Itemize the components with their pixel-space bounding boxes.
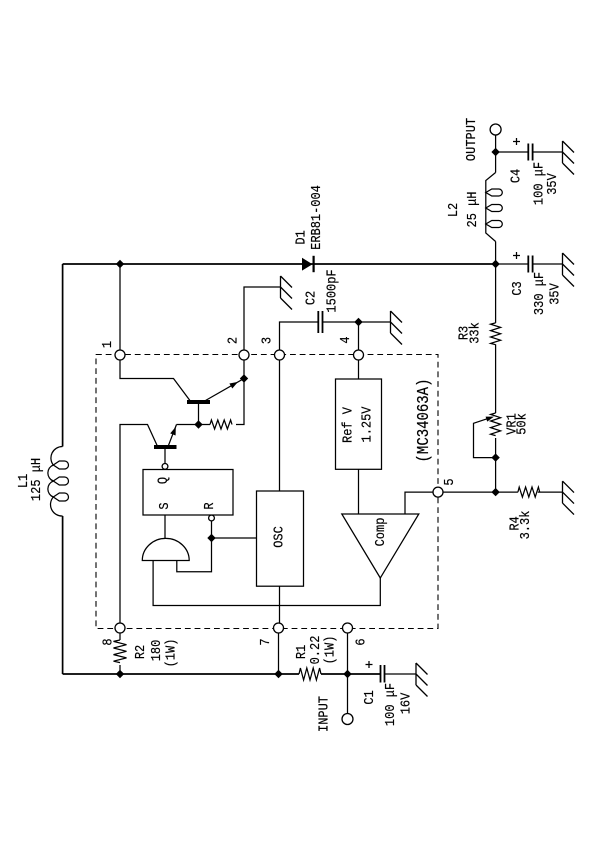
ground C1 bbox=[416, 663, 428, 697]
AND gate bbox=[142, 538, 189, 560]
capacitor C1 bbox=[381, 665, 385, 683]
wire pin4 to RefV bbox=[358, 360, 360, 380]
wire VR1 to pin5 node bbox=[495, 438, 497, 492]
pin 1 bbox=[115, 350, 125, 360]
wire pin1 from top rail bbox=[119, 264, 121, 351]
svg-text:16V: 16V bbox=[398, 693, 414, 715]
wire R3 to VR1 bbox=[495, 344, 497, 413]
pin 7 bbox=[274, 623, 284, 633]
wire pin1 to Q1 collector bbox=[120, 360, 190, 401]
wire OSC to R node bbox=[212, 537, 257, 539]
ground R4 bbox=[563, 481, 575, 514]
svg-text:2: 2 bbox=[225, 337, 241, 344]
wire C3 to ground bbox=[533, 263, 563, 265]
svg-text:(MC34063A): (MC34063A) bbox=[414, 379, 433, 463]
transistor Q2 base bar bbox=[154, 445, 177, 449]
junction R node bbox=[207, 534, 215, 542]
capacitor C3 bbox=[528, 256, 532, 273]
transistor Q2 collector bbox=[120, 425, 157, 624]
wire R2 to bottom rail bbox=[119, 665, 121, 674]
svg-text:35V: 35V bbox=[547, 283, 563, 305]
wire bottom rail right segment bbox=[321, 673, 381, 675]
terminal INPUT bbox=[342, 714, 353, 725]
svg-text:R2: R2 bbox=[132, 645, 148, 659]
svg-text:Comp: Comp bbox=[372, 518, 388, 547]
wire AND gate left input from comparator bbox=[153, 561, 380, 606]
wire INPUT stem bbox=[347, 674, 349, 714]
svg-text:1500pF: 1500pF bbox=[324, 269, 340, 312]
resistor internal (base resistor) bbox=[199, 420, 232, 429]
wire node to C3 bbox=[496, 263, 529, 265]
pin 3 bbox=[275, 350, 285, 360]
wire bottom rail left segment bbox=[63, 673, 299, 675]
svg-text:(1W): (1W) bbox=[322, 636, 338, 665]
wire R input to OSC node bbox=[177, 521, 212, 572]
resistor R1 bbox=[299, 668, 321, 680]
flip-flop box bbox=[143, 470, 233, 516]
junction bottom rail / pin6 / INPUT / C1 bbox=[343, 670, 351, 678]
svg-text:125 μH: 125 μH bbox=[28, 458, 44, 501]
arrow Q2 emitter bbox=[170, 427, 176, 436]
svg-text:C4: C4 bbox=[508, 169, 524, 184]
wire pin4 up bbox=[358, 322, 360, 351]
svg-text:5: 5 bbox=[441, 478, 457, 485]
junction pin5 / R4 bbox=[491, 488, 499, 496]
junction OUTPUT / L2 / C4 bbox=[491, 148, 499, 156]
resistor R3 bbox=[491, 323, 501, 345]
svg-text:S: S bbox=[156, 502, 172, 509]
wire RefV to comparator bbox=[358, 469, 360, 514]
arrow VR1 wiper bbox=[486, 417, 494, 422]
variable resistor VR1 bbox=[491, 413, 501, 436]
transistor Q1 base lead bbox=[198, 404, 200, 425]
pin 2 bbox=[239, 350, 249, 360]
svg-text:C1: C1 bbox=[361, 690, 377, 705]
transistor Q1 emitter bbox=[206, 379, 245, 401]
capacitor C2 bbox=[318, 311, 322, 333]
svg-text:ERB81-004: ERB81-004 bbox=[308, 185, 324, 250]
svg-text:3.3k: 3.3k bbox=[517, 510, 533, 539]
pin 8 bbox=[115, 623, 125, 633]
wire pin5 to comparator bbox=[405, 492, 433, 514]
wire top rail from L1 corner to output node bbox=[63, 263, 496, 265]
ground C2 bbox=[391, 311, 403, 345]
pin 5 bbox=[433, 487, 443, 497]
junction VR1 bottom bbox=[491, 453, 499, 461]
svg-text:33k: 33k bbox=[467, 322, 483, 344]
junction top rail / pin1 bbox=[116, 260, 124, 268]
transistor Q1 base bar bbox=[187, 400, 210, 404]
ground pin2 bbox=[281, 276, 293, 310]
wire Q2 emitter link bbox=[177, 424, 199, 426]
wire left rail upper (to L1) bbox=[62, 264, 64, 447]
svg-text:8: 8 bbox=[100, 638, 116, 645]
junction Q1 base / resistor / Q2 emitter bbox=[194, 420, 202, 428]
wire pin8 to R2 bbox=[119, 633, 121, 641]
wire pin3 to C2 bbox=[280, 322, 319, 351]
wire L2 to top rail node bbox=[495, 242, 497, 265]
svg-text:6: 6 bbox=[353, 638, 369, 645]
transistor Q2 emitter bbox=[169, 425, 177, 446]
junction bottom rail / pin7 bbox=[274, 670, 282, 678]
wire OSC to pin7 bbox=[279, 586, 281, 623]
wire pin3 to OSC bbox=[279, 360, 281, 492]
plus sign C1 bbox=[366, 661, 373, 668]
svg-text:OUTPUT: OUTPUT bbox=[463, 118, 479, 161]
wire S input to AND gate bbox=[164, 515, 166, 538]
svg-text:3: 3 bbox=[259, 337, 275, 344]
OSC box bbox=[257, 491, 304, 586]
svg-text:100 μF: 100 μF bbox=[382, 683, 398, 726]
wire pin6 stem bbox=[347, 633, 349, 675]
junction Q1 emitter / pin2 bbox=[240, 374, 248, 382]
svg-text:C2: C2 bbox=[303, 291, 319, 305]
wire VR1 wiper return bbox=[474, 417, 496, 457]
wire pin7 stem bbox=[278, 633, 280, 675]
svg-text:35V: 35V bbox=[544, 173, 560, 195]
wire pin5 to R4 node bbox=[443, 491, 496, 493]
svg-text:50k: 50k bbox=[514, 413, 530, 435]
bubble Q output bbox=[162, 464, 168, 470]
IC dashed box MC34063A bbox=[96, 355, 438, 629]
inductor L1 bbox=[48, 446, 69, 516]
wire C1 to ground bbox=[385, 673, 417, 675]
svg-text:4: 4 bbox=[337, 336, 353, 343]
svg-text:Q: Q bbox=[155, 477, 171, 484]
ground C3 bbox=[563, 253, 575, 287]
junction C2/pin4 bbox=[354, 318, 362, 326]
svg-text:330 μF: 330 μF bbox=[531, 272, 547, 315]
op-amp Comp bbox=[342, 514, 419, 578]
wire C4 to ground bbox=[533, 151, 563, 153]
arrow Q1 emitter bbox=[229, 382, 238, 389]
wire R4 to ground bbox=[538, 491, 563, 493]
svg-text:R: R bbox=[201, 502, 217, 509]
svg-text:(1W): (1W) bbox=[162, 639, 178, 668]
RefV box bbox=[336, 379, 382, 469]
plus sign C4 bbox=[513, 138, 520, 145]
wire right rail top (node to R3) bbox=[495, 264, 497, 323]
svg-text:1.25V: 1.25V bbox=[359, 406, 375, 442]
junction bottom rail / R2 bbox=[116, 670, 124, 678]
svg-text:L2: L2 bbox=[445, 203, 461, 217]
capacitor C4 bbox=[528, 144, 532, 161]
svg-text:1: 1 bbox=[99, 341, 115, 348]
wire OUTPUT to node bbox=[495, 135, 497, 173]
svg-text:C3: C3 bbox=[509, 281, 525, 296]
svg-text:Ref V: Ref V bbox=[340, 407, 356, 443]
transistor Q2 base lead bbox=[164, 449, 166, 464]
junction top rail / L2 / C3 / R3 bbox=[491, 260, 499, 268]
wire pin2 up to ground bbox=[244, 287, 281, 351]
wire pin2 down through Q1 emitter node bbox=[236, 360, 244, 425]
svg-text:25 μH: 25 μH bbox=[464, 192, 480, 228]
svg-text:7: 7 bbox=[257, 638, 273, 645]
wire output node to C4 bbox=[496, 151, 529, 153]
wire left rail lower (L1 to bottom rail) bbox=[62, 516, 64, 674]
plus sign C3 bbox=[513, 252, 520, 259]
svg-text:OSC: OSC bbox=[271, 526, 287, 548]
diode D1 bbox=[302, 256, 314, 272]
ground C4 bbox=[563, 141, 575, 175]
pin 6 bbox=[343, 623, 353, 633]
inductor L2 bbox=[486, 173, 503, 242]
svg-text:INPUT: INPUT bbox=[315, 696, 331, 732]
resistor R4 bbox=[496, 487, 540, 497]
svg-text:D1: D1 bbox=[293, 230, 309, 245]
bubble R input bbox=[209, 515, 215, 521]
resistor R2 bbox=[114, 640, 127, 663]
terminal OUTPUT bbox=[490, 124, 501, 135]
pin 4 bbox=[354, 350, 364, 360]
wire C2 to ground bbox=[323, 321, 391, 323]
